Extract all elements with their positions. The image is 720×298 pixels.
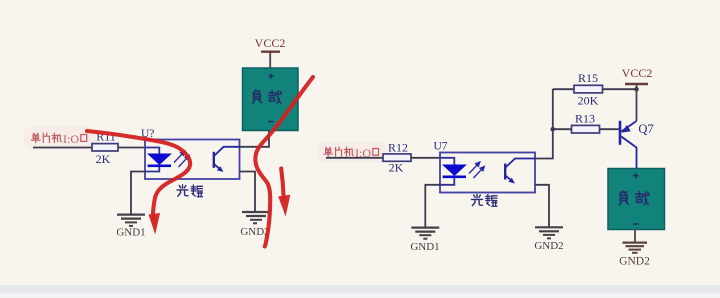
phototransistor U7 collector lead: [506, 159, 535, 168]
node label 单片机I:O口 (right MCU I/O port): [324, 146, 379, 160]
load box 负载 (right): [608, 169, 665, 230]
wire: R13 to Q7 base: [600, 128, 619, 130]
node label 单片机I:O口 (left MCU I/O port): [31, 132, 86, 146]
svg-text:2K: 2K: [96, 152, 111, 166]
wire: emitter to GND2 (left): [240, 172, 256, 213]
phototransistor of U7 (base bar): [504, 164, 506, 180]
load minus pin label: [268, 121, 274, 123]
LED inside U? (anode lead): [145, 148, 159, 155]
svg-text:20K: 20K: [578, 94, 599, 108]
red annotation stroke (left circuit): [87, 131, 190, 219]
light arrows U?: [174, 151, 189, 167]
label 光耦 (left optocoupler): [177, 185, 202, 197]
wire: collector to load (left): [240, 131, 270, 147]
svg-text:U7: U7: [434, 141, 448, 153]
junction node at R15/VCC2: [634, 87, 639, 92]
phototransistor U7 emitter lead with arrow: [506, 176, 513, 182]
LED cathode lead U?: [145, 167, 159, 172]
wire: left I/O port to R11: [33, 147, 92, 149]
label 光耦 (right optocoupler): [472, 195, 497, 207]
LED triangle U?: [148, 154, 170, 164]
phototransistor emitter lead with arrow: [215, 165, 222, 171]
transistor Q7 collector lead: [621, 137, 636, 169]
load label 负载 (left): [253, 90, 282, 103]
wire: U7 collector up to R15/R13 node: [535, 89, 553, 159]
optocoupler U7 box: [440, 153, 535, 193]
svg-text:VCC2: VCC2: [622, 66, 653, 80]
load minus pin label (right): [633, 223, 639, 225]
LED cathode bar U7: [443, 176, 466, 179]
wire: R15 to VCC2 line: [603, 88, 637, 90]
power VCC2 bar symbol (left): [261, 52, 280, 68]
resistor R12: [383, 154, 411, 161]
transistor Q7 emitter lead (to VCC2) with arrow: [621, 121, 636, 132]
ground GND2 (bottom right): [623, 243, 648, 253]
red annotation stroke (right of left circuit): [255, 77, 313, 247]
svg-text:GND2: GND2: [534, 240, 563, 252]
junction node at R13 tap: [551, 127, 556, 132]
svg-text:R13: R13: [575, 111, 595, 125]
LED inside U7 (anode lead): [440, 158, 454, 165]
resistor R11: [92, 144, 118, 151]
wash behind left label: [24, 126, 96, 150]
svg-text:Q7: Q7: [638, 122, 653, 136]
load label 负载 (right): [619, 191, 649, 204]
wire: node to R15: [553, 88, 574, 90]
red arrowhead (left): [149, 213, 161, 235]
resistor R13: [572, 125, 600, 133]
phototransistor of U? (base bar): [213, 152, 215, 168]
red arrow (right) shaft: [281, 169, 283, 198]
LED cathode lead U7: [440, 178, 454, 185]
light arrows U7: [469, 162, 484, 178]
svg-text:VCC2: VCC2: [255, 36, 286, 50]
wire: U7 LED cathode to GND1: [425, 185, 440, 228]
ground GND1 (right): [411, 228, 439, 239]
power VCC2 bar symbol (right): [625, 84, 648, 121]
load plus pin label (right): [633, 173, 639, 179]
LED cathode bar U?: [148, 165, 171, 168]
optocoupler U? box: [145, 140, 240, 180]
svg-text:R12: R12: [388, 141, 408, 155]
svg-text:GND2: GND2: [619, 256, 650, 268]
svg-text:I:O: I:O: [63, 132, 79, 146]
ground GND1 (left): [117, 215, 145, 226]
svg-text:GND1: GND1: [410, 241, 439, 253]
wire: LED cathode to GND1: [131, 172, 145, 215]
red arrowhead (right): [278, 195, 290, 217]
load plus pin label: [268, 74, 274, 80]
ground GND2 (right opto): [535, 227, 563, 238]
svg-text:R15: R15: [578, 71, 598, 85]
load box 负载 (left): [243, 68, 299, 131]
wire: right I/O port to R12: [326, 157, 383, 159]
phototransistor collector lead: [215, 147, 240, 156]
ground GND2 (left): [242, 212, 270, 223]
svg-text:GND1: GND1: [116, 227, 145, 239]
wire: R11 to optocoupler U?: [118, 147, 146, 149]
wire: U7 emitter to GND2: [535, 185, 549, 227]
transistor Q7 base bar: [619, 121, 622, 145]
wire: node to R13: [553, 128, 572, 130]
wire: load to GND2 (bottom right): [634, 230, 636, 243]
resistor R15: [574, 85, 603, 93]
svg-text:2K: 2K: [389, 161, 404, 175]
LED triangle U7: [443, 165, 465, 175]
wash behind right label: [318, 141, 388, 163]
wire: R12 to optocoupler U7: [411, 157, 441, 159]
